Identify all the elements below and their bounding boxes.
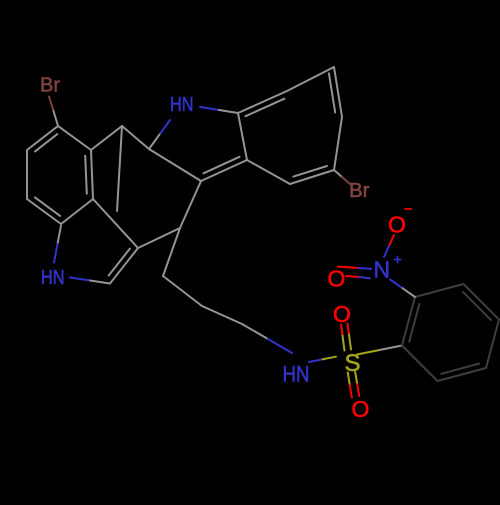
svg-text:HN: HN <box>283 362 310 387</box>
svg-text:N: N <box>374 257 391 283</box>
nitro N+ to ring bond <box>390 280 403 289</box>
right ring aromatic inner lines <box>246 73 336 176</box>
central methine bond to left indole C3 <box>138 228 180 248</box>
chain bond Ccent-Q1 <box>163 228 180 276</box>
svg-text:Br: Br <box>40 75 60 97</box>
left benzene aromatic inner lines <box>35 134 87 216</box>
sulfonamide N-S bond <box>309 359 323 362</box>
nosyl benzene ring <box>402 284 499 381</box>
right indole N1-C2 bond <box>160 120 171 135</box>
left indole benzene ring <box>27 126 93 224</box>
sulfonyl S=O bottom double bond <box>348 372 357 385</box>
svg-text:O: O <box>352 396 370 422</box>
right pyrrole C3=C3a double bond <box>201 160 247 181</box>
nitro O- to N+ bond <box>389 235 394 246</box>
sulfonyl S=O top double bond <box>342 333 351 351</box>
svg-text:Br: Br <box>349 180 370 202</box>
svg-text:O: O <box>328 266 346 292</box>
chain bond Q3 to sulfonamide N <box>242 324 268 339</box>
right pyrrole C2-C3 bond <box>149 149 201 181</box>
svg-text:O: O <box>333 301 351 327</box>
bridge carbon X bonds <box>91 126 122 150</box>
chain bond Q1-Q2 <box>163 276 202 306</box>
left pyrrole C3-C3a bond <box>93 199 138 248</box>
svg-text:+: + <box>394 251 402 267</box>
right indole N1-C7a bond <box>200 107 219 110</box>
nitro N=O double bond <box>357 268 371 278</box>
right cycloheptane ring <box>238 67 342 184</box>
svg-text:−: − <box>404 201 412 217</box>
bromine Br1 bond <box>49 97 54 112</box>
chain bond Q2-Q3 <box>202 306 242 324</box>
central methine bond to right ring C3 <box>180 181 201 228</box>
bromine Br2 bond <box>334 170 342 177</box>
left pyrrole C2=C3 double bond <box>110 248 138 284</box>
S-aryl bond <box>357 350 380 355</box>
nosyl aromatic inner lines <box>409 292 491 374</box>
svg-text:HN: HN <box>170 94 194 116</box>
svg-text:HN: HN <box>41 267 65 289</box>
left pyrrole N bonds <box>58 226 62 245</box>
